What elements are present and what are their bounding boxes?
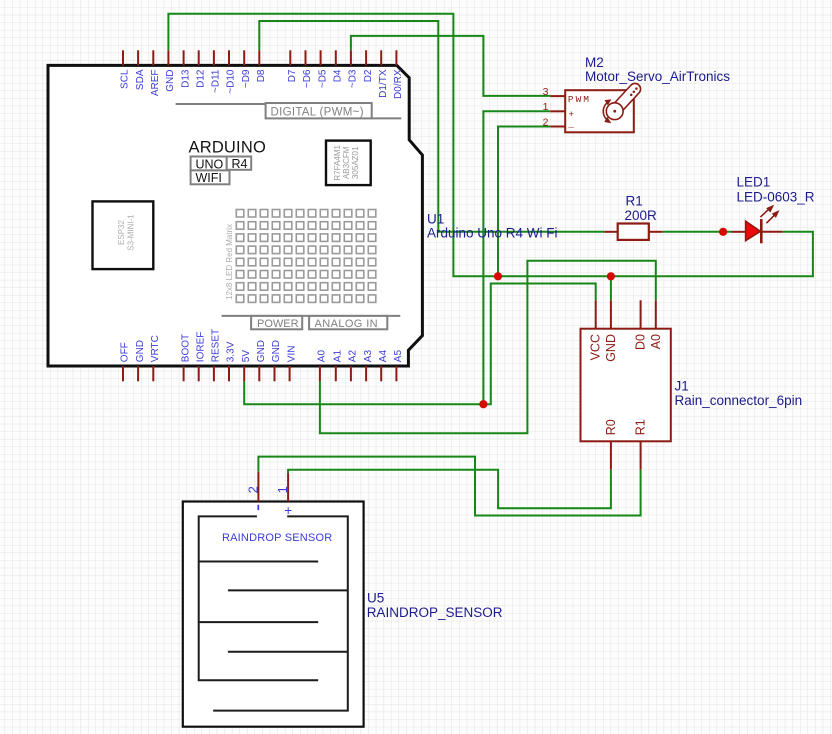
wire net D8: U1.D8 to R1.1 bbox=[259, 21, 604, 232]
LED1 light arrows bbox=[760, 206, 778, 223]
wire segment M2.- down to GND net bbox=[498, 127, 550, 277]
motor M2 labels bbox=[585, 55, 730, 84]
U1 pin D8 (top) bbox=[256, 50, 267, 82]
junction at (483.4,404.2) bbox=[479, 400, 487, 408]
U1 pin OFF (bottom) bbox=[120, 342, 131, 381]
svg-text:D1/TX: D1/TX bbox=[378, 69, 389, 98]
svg-text:1: 1 bbox=[543, 101, 549, 113]
svg-text:3.3V: 3.3V bbox=[226, 341, 237, 362]
U1 pin A5 (bottom) bbox=[393, 350, 404, 382]
U1 UNO box bbox=[191, 157, 227, 172]
sensor U5 outer box bbox=[183, 502, 364, 727]
wire segment M2.+ down to 5V net bbox=[483, 111, 550, 404]
connector J1 pin R1 (bottom) bbox=[634, 419, 648, 469]
svg-text:U5: U5 bbox=[367, 591, 384, 606]
U1 pin D12 (top) bbox=[195, 50, 206, 88]
svg-text:D12: D12 bbox=[195, 69, 206, 88]
U1 reference label bbox=[427, 211, 558, 240]
svg-text:D8: D8 bbox=[256, 69, 267, 82]
svg-text:_: _ bbox=[567, 119, 574, 130]
wire segment GND net to J1.GND pin bbox=[610, 276, 612, 300]
LED1 cathode bar bbox=[760, 219, 763, 243]
svg-text:3: 3 bbox=[543, 86, 549, 98]
svg-text:A4: A4 bbox=[378, 350, 389, 363]
svg-text:J1: J1 bbox=[675, 379, 689, 394]
resistor R1 labels bbox=[625, 194, 658, 223]
svg-text:A1: A1 bbox=[333, 350, 344, 363]
U1 pin A1 (bottom) bbox=[333, 350, 344, 382]
connector J1 labels bbox=[675, 379, 803, 408]
U1 pin D7 (top) bbox=[287, 50, 298, 82]
svg-text:VRTC: VRTC bbox=[150, 335, 161, 362]
sensor U5 electrode comb bbox=[199, 516, 348, 710]
U1 WIFI box bbox=[191, 170, 230, 185]
svg-text:A2: A2 bbox=[348, 350, 359, 363]
U1 pin GND (bottom) bbox=[135, 340, 146, 381]
motor M2 box bbox=[565, 90, 634, 132]
junction at (610.9,276.3) bbox=[607, 272, 615, 280]
U1 pin ~D10 (top) bbox=[226, 50, 237, 93]
svg-text:305AZ01: 305AZ01 bbox=[351, 146, 360, 179]
svg-text:U1: U1 bbox=[427, 211, 444, 226]
wire net A0: U1.A0 to J1.A0 bbox=[320, 261, 656, 433]
sensor U5 labels bbox=[367, 591, 503, 620]
U1 pin ~D5 (top) bbox=[317, 50, 328, 88]
svg-text:VIN: VIN bbox=[286, 346, 297, 363]
U1 pin A0 (bottom) bbox=[317, 350, 328, 382]
svg-text:Motor_Servo_AirTronics: Motor_Servo_AirTronics bbox=[585, 69, 730, 84]
svg-text:GND: GND bbox=[135, 340, 146, 362]
U1 ANALOG IN header bbox=[309, 316, 387, 330]
resistor R1 body bbox=[618, 224, 649, 240]
U1 pin BOOT (bottom) bbox=[180, 334, 191, 381]
connector J1 pin A0 (top) bbox=[649, 300, 663, 349]
svg-text:M2: M2 bbox=[585, 55, 604, 70]
svg-text:PWM: PWM bbox=[568, 94, 591, 105]
U1 pin D0/RX (top) bbox=[393, 50, 404, 99]
U1 ESP32 module box bbox=[93, 201, 154, 269]
svg-text:A0: A0 bbox=[317, 350, 328, 363]
svg-text:D0/RX: D0/RX bbox=[393, 69, 404, 99]
svg-text:RESET: RESET bbox=[211, 329, 222, 362]
U1 pin GND (top) bbox=[165, 50, 176, 91]
U1 POWER header bbox=[222, 316, 401, 330]
U1 pin VIN (bottom) bbox=[286, 346, 297, 382]
svg-text:2: 2 bbox=[543, 116, 549, 128]
wire net R1: J1.R1 to U5.2(-) bbox=[258, 457, 640, 516]
svg-text:~D3: ~D3 bbox=[348, 69, 359, 88]
U1 pin ~D3 (top) bbox=[348, 50, 359, 88]
U1 pin IOREF (bottom) bbox=[195, 332, 206, 382]
wire net 5V: U1.5V to J1.VCC bbox=[244, 284, 596, 405]
svg-text:D7: D7 bbox=[287, 69, 298, 82]
U1 pin D4 (top) bbox=[333, 50, 344, 82]
connector J1 pin GND (top) bbox=[604, 300, 618, 361]
U1 R4 box bbox=[227, 157, 252, 172]
svg-text:D4: D4 bbox=[333, 69, 344, 82]
svg-text:~D9: ~D9 bbox=[241, 69, 252, 88]
svg-text:ARDUINO: ARDUINO bbox=[189, 139, 267, 157]
U1 pin D1/TX (top) bbox=[378, 50, 389, 98]
LED1 labels bbox=[737, 174, 815, 204]
svg-text:R7FA4M1: R7FA4M1 bbox=[333, 144, 342, 180]
svg-text:~D11: ~D11 bbox=[211, 69, 222, 93]
svg-text:5V: 5V bbox=[241, 350, 252, 363]
svg-text:BOOT: BOOT bbox=[180, 334, 191, 362]
motor M2 pin 1 + bbox=[543, 101, 575, 120]
svg-text:GND: GND bbox=[165, 70, 176, 92]
svg-text:R1: R1 bbox=[626, 194, 643, 209]
svg-text:~D5: ~D5 bbox=[317, 69, 328, 88]
connector J1 pin VCC (top) bbox=[589, 300, 603, 360]
svg-text:D0: D0 bbox=[634, 334, 648, 350]
svg-text:POWER: POWER bbox=[257, 318, 299, 330]
U1 pin ~D11 (top) bbox=[211, 50, 222, 93]
svg-text:R1: R1 bbox=[634, 419, 648, 435]
svg-text:OFF: OFF bbox=[120, 342, 131, 362]
U1 pin A3 (bottom) bbox=[363, 350, 374, 382]
U1 pin VRTC (bottom) bbox=[150, 335, 161, 381]
U1 pin D13 (top) bbox=[180, 50, 191, 88]
svg-text:GND: GND bbox=[256, 340, 267, 362]
U1 pin ~D6 (top) bbox=[302, 50, 313, 88]
svg-text:R0: R0 bbox=[604, 419, 618, 435]
svg-text:A0: A0 bbox=[649, 334, 663, 349]
sensor U5 pin 2 (-) bbox=[245, 472, 260, 510]
U1 pin AREF (top) bbox=[150, 50, 161, 96]
U1 12x8 LED matrix squares bbox=[236, 210, 375, 303]
svg-text:AREF: AREF bbox=[150, 70, 161, 97]
svg-text:DIGITAL (PWM~): DIGITAL (PWM~) bbox=[271, 106, 364, 118]
svg-text:S3-MINI-1: S3-MINI-1 bbox=[127, 214, 136, 251]
connector J1 pin R0 (bottom) bbox=[604, 419, 618, 469]
U1 pin SDA (top) bbox=[135, 50, 146, 90]
svg-text:UNO: UNO bbox=[196, 157, 224, 171]
svg-text:LED-0603_R: LED-0603_R bbox=[737, 190, 815, 205]
U1 pin 5V (bottom) bbox=[241, 350, 252, 382]
wire net D3: U1.D3 to M2.PWM bbox=[351, 36, 550, 96]
U1 pin GND (bottom) bbox=[256, 340, 267, 381]
mcu U1 Arduino Uno R4 WiFi body bbox=[48, 65, 422, 366]
svg-text:RAINDROP SENSOR: RAINDROP SENSOR bbox=[222, 532, 332, 544]
U1 pin GND (bottom) bbox=[271, 340, 282, 381]
svg-text:VCC: VCC bbox=[589, 334, 603, 360]
svg-text:A3: A3 bbox=[363, 350, 374, 363]
svg-text:WIFI: WIFI bbox=[196, 171, 222, 185]
svg-text:+: + bbox=[284, 503, 292, 518]
svg-text:R4: R4 bbox=[232, 157, 248, 171]
svg-text:12x8 LED Red Matrix: 12x8 LED Red Matrix bbox=[225, 224, 234, 300]
svg-text:GND: GND bbox=[604, 334, 618, 362]
wire net R0: J1.R0 to U5.1(+) bbox=[288, 470, 611, 509]
resistor R1 pin stubs bbox=[604, 231, 618, 233]
svg-text:~D10: ~D10 bbox=[226, 69, 237, 94]
svg-text:ESP32: ESP32 bbox=[117, 219, 126, 244]
U1 pin RESET (bottom) bbox=[211, 329, 222, 381]
svg-text:1: 1 bbox=[275, 486, 290, 493]
U1 pin 3.3V (bottom) bbox=[226, 341, 237, 381]
wire net GND: U1.GND to J1.GND / servo- / LED1 cathode bbox=[168, 14, 813, 277]
svg-text:AB3CFM: AB3CFM bbox=[342, 146, 351, 179]
U1 pin D2 (top) bbox=[363, 50, 374, 82]
svg-text:RAINDROP_SENSOR: RAINDROP_SENSOR bbox=[367, 605, 503, 620]
junction at (498.0,276.3) bbox=[494, 272, 502, 280]
U1 R7FA4M1 chip box bbox=[326, 141, 371, 186]
connector J1 pin D0 (top) bbox=[634, 300, 648, 350]
sensor U5 pin 1 (+) bbox=[275, 473, 292, 518]
svg-text:2: 2 bbox=[245, 486, 260, 493]
LED1 pin stubs bbox=[732, 231, 746, 233]
svg-text:Rain_connector_6pin: Rain_connector_6pin bbox=[675, 393, 803, 408]
svg-text:A5: A5 bbox=[393, 350, 404, 363]
svg-text:D13: D13 bbox=[180, 69, 191, 88]
motor M2 pin 2 - bbox=[543, 116, 575, 129]
motor M2 servo arm icon bbox=[603, 83, 640, 123]
U1 pin A2 (bottom) bbox=[348, 350, 359, 382]
svg-text:200R: 200R bbox=[625, 208, 658, 223]
svg-text:LED1: LED1 bbox=[737, 174, 771, 189]
svg-text:Arduino Uno R4 Wi Fi: Arduino Uno R4 Wi Fi bbox=[427, 226, 558, 241]
connector J1 box bbox=[581, 329, 671, 442]
svg-text:SDA: SDA bbox=[135, 69, 146, 90]
motor M2 pin 3 PWM bbox=[543, 86, 591, 105]
svg-text:ANALOG IN: ANALOG IN bbox=[315, 318, 379, 330]
svg-text:IOREF: IOREF bbox=[195, 332, 206, 363]
junction at (723.1,231.8) bbox=[719, 228, 727, 236]
wire segment R1.2 to LED1 anode bbox=[663, 231, 732, 233]
svg-text:~D6: ~D6 bbox=[302, 69, 313, 88]
U1 pin SCL (top) bbox=[120, 50, 131, 89]
LED1 triangle bbox=[746, 221, 761, 241]
U1 DIGITAL (PWM~) header bbox=[176, 103, 402, 118]
svg-text:D2: D2 bbox=[363, 69, 374, 82]
svg-text:GND: GND bbox=[271, 340, 282, 362]
U1 pin ~D9 (top) bbox=[241, 50, 252, 88]
U1 pin A4 (bottom) bbox=[378, 350, 389, 382]
svg-text:SCL: SCL bbox=[120, 69, 131, 89]
